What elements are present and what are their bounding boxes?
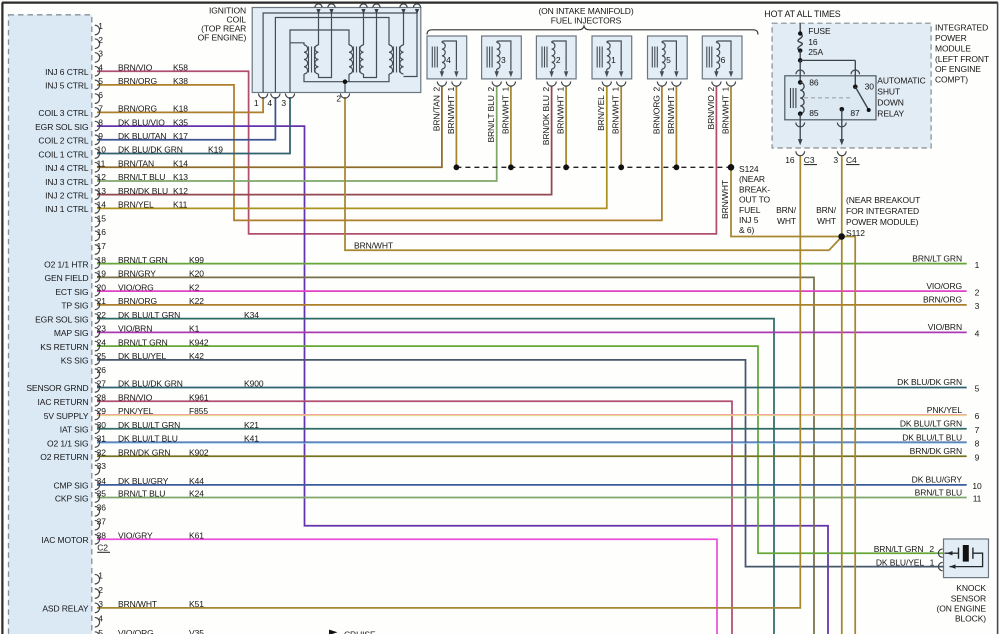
svg-text:30: 30: [865, 81, 875, 91]
svg-text:1: 1: [446, 87, 456, 92]
svg-text:V35: V35: [189, 628, 204, 634]
svg-text:BRN/ORG: BRN/ORG: [923, 295, 962, 305]
svg-text:2: 2: [541, 87, 551, 92]
svg-text:(NEAR BREAKOUT: (NEAR BREAKOUT: [846, 195, 920, 205]
svg-text:IAC MOTOR: IAC MOTOR: [41, 535, 88, 545]
svg-text:DK BLU/DK GRN: DK BLU/DK GRN: [118, 379, 183, 389]
svg-text:DOWN: DOWN: [877, 98, 904, 108]
svg-text:O2 RETURN: O2 RETURN: [40, 452, 88, 462]
svg-text:BRN/WHT: BRN/WHT: [556, 95, 566, 134]
svg-text:KNOCK: KNOCK: [956, 583, 986, 593]
svg-text:BRN/WHT: BRN/WHT: [720, 95, 730, 134]
svg-text:OF ENGINE: OF ENGINE: [935, 64, 981, 74]
svg-text:C3: C3: [804, 155, 815, 165]
svg-text:4: 4: [98, 62, 103, 72]
svg-text:5: 5: [975, 384, 980, 394]
svg-text:MAP SIG: MAP SIG: [54, 328, 89, 338]
svg-text:3: 3: [281, 98, 286, 108]
svg-text:TP SIG: TP SIG: [61, 301, 88, 311]
svg-text:BRN/LT GRN: BRN/LT GRN: [118, 255, 168, 265]
svg-text:BRN/YEL: BRN/YEL: [596, 95, 606, 131]
svg-text:9: 9: [98, 131, 103, 141]
svg-text:POWER: POWER: [935, 33, 967, 43]
svg-text:BRN/LT BLU: BRN/LT BLU: [118, 489, 165, 499]
svg-text:K42: K42: [189, 351, 204, 361]
svg-text:4: 4: [267, 98, 272, 108]
svg-text:BRN/DK GRN: BRN/DK GRN: [118, 447, 170, 457]
svg-text:INJ 5 CTRL: INJ 5 CTRL: [45, 81, 89, 91]
svg-text:SHUT: SHUT: [877, 87, 900, 97]
svg-text:COMPT): COMPT): [935, 75, 968, 85]
svg-text:VIO/ORG: VIO/ORG: [118, 282, 154, 292]
svg-text:4: 4: [98, 613, 103, 623]
svg-text:K19: K19: [208, 145, 223, 155]
svg-text:86: 86: [809, 78, 819, 88]
svg-text:1: 1: [666, 87, 676, 92]
svg-text:87: 87: [850, 108, 860, 118]
svg-text:INJ 4 CTRL: INJ 4 CTRL: [45, 163, 89, 173]
svg-text:EGR SOL SIG: EGR SOL SIG: [35, 314, 88, 324]
svg-text:K61: K61: [189, 531, 204, 541]
svg-text:BRN/DK BLU: BRN/DK BLU: [541, 95, 551, 145]
svg-text:BRN/GRY: BRN/GRY: [118, 269, 156, 279]
svg-text:1: 1: [500, 87, 510, 92]
svg-text:2: 2: [556, 55, 561, 65]
svg-text:K21: K21: [244, 420, 259, 430]
svg-text:1: 1: [975, 260, 980, 270]
svg-text:S124: S124: [739, 164, 759, 174]
svg-text:SENSOR: SENSOR: [951, 593, 986, 603]
svg-text:K12: K12: [173, 186, 188, 196]
svg-text:1: 1: [611, 55, 616, 65]
svg-text:21: 21: [97, 296, 107, 306]
svg-text:26: 26: [97, 365, 107, 375]
svg-text:CKP SIG: CKP SIG: [55, 493, 89, 503]
svg-text:2: 2: [486, 87, 496, 92]
svg-text:27: 27: [97, 379, 107, 389]
svg-text:2: 2: [596, 87, 606, 92]
svg-text:BRN/TAN: BRN/TAN: [431, 95, 441, 131]
svg-text:1: 1: [254, 98, 259, 108]
svg-text:BRN/YEL: BRN/YEL: [118, 200, 154, 210]
svg-text:5V SUPPLY: 5V SUPPLY: [44, 411, 89, 421]
svg-text:K44: K44: [189, 476, 204, 486]
svg-text:BRN/WHT: BRN/WHT: [500, 95, 510, 134]
svg-text:32: 32: [97, 447, 107, 457]
svg-text:DK BLU/DK GRN: DK BLU/DK GRN: [897, 377, 962, 387]
svg-text:K99: K99: [189, 255, 204, 265]
svg-text:PNK/YEL: PNK/YEL: [927, 405, 963, 415]
svg-text:K2: K2: [189, 282, 200, 292]
svg-text:2: 2: [651, 87, 661, 92]
svg-text:25: 25: [97, 351, 107, 361]
svg-text:BRN/LT GRN: BRN/LT GRN: [118, 337, 168, 347]
svg-text:3: 3: [501, 55, 506, 65]
svg-text:AUTOMATIC: AUTOMATIC: [877, 76, 925, 86]
svg-text:K18: K18: [173, 104, 188, 114]
svg-text:15: 15: [97, 213, 107, 223]
svg-text:HOT AT ALL TIMES: HOT AT ALL TIMES: [764, 9, 841, 19]
svg-text:BRN/WHT: BRN/WHT: [354, 241, 393, 251]
svg-text:K22: K22: [189, 296, 204, 306]
svg-text:K35: K35: [173, 117, 188, 127]
svg-text:K24: K24: [189, 489, 204, 499]
svg-text:1: 1: [98, 570, 103, 580]
svg-text:INJ 5: INJ 5: [739, 215, 759, 225]
svg-text:BRN/LT GRN: BRN/LT GRN: [874, 544, 924, 554]
svg-text:CMP SIG: CMP SIG: [53, 481, 88, 491]
svg-text:1: 1: [930, 558, 935, 568]
svg-text:IAT SIG: IAT SIG: [60, 425, 89, 435]
svg-text:20: 20: [97, 282, 107, 292]
svg-text:K1: K1: [189, 324, 200, 334]
svg-text:COIL 1 CTRL: COIL 1 CTRL: [38, 149, 88, 159]
svg-text:35: 35: [97, 489, 107, 499]
svg-text:K902: K902: [189, 447, 209, 457]
svg-text:BRN/WHT: BRN/WHT: [720, 180, 730, 219]
svg-text:BLOCK): BLOCK): [955, 614, 986, 624]
svg-text:DK BLU/LT GRN: DK BLU/LT GRN: [900, 419, 962, 429]
svg-text:1: 1: [611, 87, 621, 92]
svg-text:BRN/: BRN/: [816, 205, 837, 215]
svg-text:BRN/LT BLU: BRN/LT BLU: [486, 95, 496, 142]
svg-text:BRN/ORG: BRN/ORG: [118, 76, 157, 86]
svg-text:VIO/ORG: VIO/ORG: [118, 628, 154, 634]
svg-text:INTEGRATED: INTEGRATED: [935, 23, 988, 33]
svg-text:DK BLU/GRY: DK BLU/GRY: [118, 476, 169, 486]
svg-text:7: 7: [975, 425, 980, 435]
svg-text:K38: K38: [173, 76, 188, 86]
svg-text:KS SIG: KS SIG: [61, 356, 89, 366]
svg-text:COIL 2 CTRL: COIL 2 CTRL: [38, 136, 88, 146]
svg-text:F855: F855: [189, 406, 208, 416]
svg-text:2: 2: [98, 585, 103, 595]
svg-text:O2 1/1 SIG: O2 1/1 SIG: [47, 438, 89, 448]
svg-text:5: 5: [98, 76, 103, 86]
svg-text:VIO/ORG: VIO/ORG: [926, 281, 962, 291]
svg-text:K13: K13: [173, 172, 188, 182]
svg-text:6: 6: [975, 411, 980, 421]
svg-text:29: 29: [97, 406, 107, 416]
svg-text:16: 16: [97, 227, 107, 237]
svg-text:11: 11: [973, 494, 982, 504]
svg-text:23: 23: [97, 324, 107, 334]
svg-text:BRN/WHT: BRN/WHT: [611, 95, 621, 134]
svg-text:K20: K20: [189, 269, 204, 279]
svg-text:BRN/ORG: BRN/ORG: [118, 296, 157, 306]
svg-text:INJ 1 CTRL: INJ 1 CTRL: [45, 204, 89, 214]
svg-text:FUSE: FUSE: [808, 26, 831, 36]
svg-text:31: 31: [97, 434, 107, 444]
svg-text:DK BLU/YEL: DK BLU/YEL: [118, 351, 167, 361]
svg-text:BRN/LT GRN: BRN/LT GRN: [912, 253, 962, 263]
svg-text:CRUISE: CRUISE: [344, 630, 376, 634]
svg-text:2: 2: [336, 94, 341, 104]
svg-text:85: 85: [809, 108, 819, 118]
svg-text:WHT: WHT: [777, 216, 796, 226]
svg-text:34: 34: [97, 476, 107, 486]
svg-text:2: 2: [929, 544, 934, 554]
svg-text:OF ENGINE): OF ENGINE): [198, 33, 247, 43]
svg-text:PNK/YEL: PNK/YEL: [118, 406, 154, 416]
svg-text:MODULE: MODULE: [935, 43, 971, 53]
svg-text:DK BLU/LT BLU: DK BLU/LT BLU: [118, 434, 178, 444]
svg-text:(LEFT FRONT: (LEFT FRONT: [935, 54, 989, 64]
svg-text:8: 8: [975, 439, 980, 449]
svg-text:K11: K11: [173, 200, 188, 210]
svg-text:30: 30: [97, 420, 107, 430]
svg-text:IAC RETURN: IAC RETURN: [38, 397, 89, 407]
svg-text:INJ 6 CTRL: INJ 6 CTRL: [45, 67, 89, 77]
svg-text:VIO/BRN: VIO/BRN: [118, 324, 152, 334]
svg-text:13: 13: [97, 186, 107, 196]
svg-text:DK BLU/LT GRN: DK BLU/LT GRN: [118, 420, 180, 430]
svg-text:12: 12: [97, 172, 107, 182]
svg-text:BRN/DK BLU: BRN/DK BLU: [118, 186, 168, 196]
svg-text:2: 2: [706, 87, 716, 92]
svg-text:INJ 3 CTRL: INJ 3 CTRL: [45, 177, 89, 187]
svg-text:16: 16: [785, 155, 795, 165]
svg-text:DK BLU/DK GRN: DK BLU/DK GRN: [118, 145, 183, 155]
svg-text:37: 37: [97, 516, 107, 526]
svg-text:DK BLU/YEL: DK BLU/YEL: [876, 558, 925, 568]
svg-text:DK BLU/GRY: DK BLU/GRY: [912, 475, 963, 485]
svg-text:SENSOR GRND: SENSOR GRND: [26, 383, 88, 393]
svg-text:BRN/ORG: BRN/ORG: [651, 95, 661, 134]
svg-text:7: 7: [98, 104, 103, 114]
svg-text:& 6): & 6): [739, 225, 754, 235]
svg-text:C2: C2: [97, 543, 108, 553]
svg-text:FOR INTEGRATED: FOR INTEGRATED: [846, 206, 919, 216]
svg-text:K961: K961: [189, 392, 209, 402]
svg-text:(NEAR: (NEAR: [739, 174, 765, 184]
svg-text:BRN/WHT: BRN/WHT: [118, 599, 157, 609]
svg-text:GEN FIELD: GEN FIELD: [45, 273, 89, 283]
svg-text:K942: K942: [189, 337, 209, 347]
svg-text:EGR SOL SIG: EGR SOL SIG: [35, 122, 88, 132]
svg-text:17: 17: [97, 241, 107, 251]
svg-text:FUEL INJECTORS: FUEL INJECTORS: [551, 16, 622, 26]
svg-text:BRN/VIO: BRN/VIO: [118, 62, 153, 72]
svg-text:VIO/GRY: VIO/GRY: [118, 531, 153, 541]
svg-text:18: 18: [97, 255, 107, 265]
svg-text:WHT: WHT: [817, 216, 836, 226]
svg-text:9: 9: [975, 452, 980, 462]
svg-text:14: 14: [97, 200, 107, 210]
svg-text:BRN/TAN: BRN/TAN: [118, 158, 154, 168]
svg-text:4: 4: [975, 329, 980, 339]
svg-text:S112: S112: [846, 228, 865, 238]
svg-text:K17: K17: [173, 131, 188, 141]
svg-text:(ON ENGINE: (ON ENGINE: [936, 604, 986, 614]
svg-text:BRN/ORG: BRN/ORG: [118, 104, 157, 114]
svg-text:INJ 2 CTRL: INJ 2 CTRL: [45, 190, 89, 200]
svg-text:BRN/VIO: BRN/VIO: [706, 95, 716, 130]
svg-text:28: 28: [97, 392, 107, 402]
svg-text:24: 24: [97, 337, 107, 347]
svg-text:8: 8: [98, 117, 103, 127]
svg-text:BREAK-: BREAK-: [739, 184, 770, 194]
svg-text:10: 10: [97, 145, 107, 155]
svg-text:K58: K58: [173, 62, 188, 72]
svg-text:K41: K41: [244, 434, 259, 444]
svg-text:BRN/WHT: BRN/WHT: [666, 95, 676, 134]
svg-text:10: 10: [972, 481, 982, 491]
svg-text:3: 3: [98, 599, 103, 609]
svg-text:ASD RELAY: ASD RELAY: [42, 604, 89, 614]
svg-text:25A: 25A: [808, 47, 823, 57]
svg-text:DK BLU/LT BLU: DK BLU/LT BLU: [902, 432, 962, 442]
svg-text:BRN/DK GRN: BRN/DK GRN: [910, 446, 962, 456]
svg-text:BRN/LT BLU: BRN/LT BLU: [118, 172, 165, 182]
svg-text:38: 38: [97, 531, 107, 541]
svg-text:22: 22: [97, 310, 107, 320]
svg-text:C4: C4: [846, 155, 857, 165]
svg-text:1: 1: [98, 21, 103, 31]
svg-text:O2 1/1 HTR: O2 1/1 HTR: [44, 259, 88, 269]
svg-text:K34: K34: [244, 310, 259, 320]
svg-text:3: 3: [833, 155, 838, 165]
svg-text:16: 16: [808, 37, 818, 47]
svg-text:BRN/: BRN/: [776, 205, 797, 215]
svg-text:4: 4: [446, 55, 451, 65]
svg-text:BRN/WHT: BRN/WHT: [446, 95, 456, 134]
svg-text:3: 3: [98, 49, 103, 59]
svg-text:BRN/LT BLU: BRN/LT BLU: [915, 487, 962, 497]
svg-text:KS RETURN: KS RETURN: [40, 342, 88, 352]
svg-text:K900: K900: [244, 379, 264, 389]
svg-text:FUEL: FUEL: [739, 205, 761, 215]
svg-text:K51: K51: [189, 599, 204, 609]
svg-text:BRN/VIO: BRN/VIO: [118, 392, 153, 402]
svg-text:19: 19: [97, 269, 107, 279]
svg-text:RELAY: RELAY: [877, 109, 904, 119]
svg-text:6: 6: [98, 90, 103, 100]
svg-text:(ON INTAKE MANIFOLD): (ON INTAKE MANIFOLD): [538, 6, 633, 16]
svg-text:36: 36: [97, 503, 107, 513]
svg-text:6: 6: [721, 55, 726, 65]
svg-text:DK BLU/VIO: DK BLU/VIO: [118, 117, 165, 127]
svg-text:1: 1: [720, 87, 730, 92]
svg-text:11: 11: [97, 158, 106, 168]
svg-text:K14: K14: [173, 158, 188, 168]
svg-text:VIO/BRN: VIO/BRN: [928, 322, 962, 332]
svg-text:ECT SIG: ECT SIG: [55, 287, 88, 297]
svg-text:2: 2: [975, 287, 980, 297]
svg-text:DK BLU/TAN: DK BLU/TAN: [118, 131, 166, 141]
svg-text:COIL 3 CTRL: COIL 3 CTRL: [38, 108, 88, 118]
svg-text:33: 33: [97, 461, 107, 471]
svg-text:3: 3: [975, 301, 980, 311]
svg-text:POWER MODULE): POWER MODULE): [846, 217, 919, 227]
svg-text:2: 2: [98, 35, 103, 45]
svg-text:5: 5: [666, 55, 671, 65]
svg-text:5: 5: [98, 628, 103, 634]
svg-text:1: 1: [556, 87, 566, 92]
svg-text:DK BLU/LT GRN: DK BLU/LT GRN: [118, 310, 180, 320]
svg-text:2: 2: [431, 87, 441, 92]
svg-text:OUT TO: OUT TO: [739, 195, 771, 205]
